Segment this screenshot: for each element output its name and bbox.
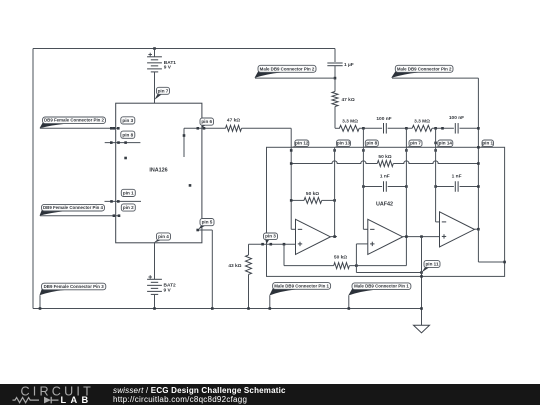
- wire pin8 column: [362, 128, 364, 229]
- flag Male DB9 Connector Pin 2 right: [391, 71, 418, 78]
- wire DB9F3 stub: [39, 295, 41, 308]
- wire pin13 column: [334, 147, 336, 236]
- svg-text:http://circuitlab.com/c8qc8d92: http://circuitlab.com/c8qc8d92cfagg: [113, 395, 247, 404]
- wire feedback 50k row: [291, 161, 377, 164]
- flag DB9 Female Connector Pin 2: [40, 122, 66, 128]
- svg-text:pin 14: pin 14: [439, 140, 453, 145]
- wire BAT2 bottom: [154, 295, 156, 309]
- node pin2 wire dots: [113, 214, 116, 217]
- svg-text:DB9 Female Connector Pin 3: DB9 Female Connector Pin 3: [44, 284, 105, 289]
- wire opamp3 out drop: [477, 229, 479, 262]
- node MaleDB9-1a dot: [269, 307, 272, 310]
- node row dot2: [405, 127, 408, 130]
- wire pin6 inner stub: [183, 128, 185, 157]
- wire 1uF to node: [334, 66, 336, 92]
- wire pin8 stub: [105, 142, 141, 144]
- svg-text:43 kΩ: 43 kΩ: [228, 263, 241, 269]
- wire pin3 input: [40, 127, 118, 129]
- node pin11 dot: [420, 271, 423, 274]
- pin label pin 6: [202, 124, 207, 128]
- svg-text:1 nF: 1 nF: [452, 174, 462, 180]
- wire ground column: [421, 237, 423, 326]
- wire 47k to row: [334, 107, 336, 129]
- pin label pin 1 uaf: [480, 145, 488, 147]
- wire BAT1 top stem: [154, 49, 156, 57]
- svg-text:LAB: LAB: [61, 395, 93, 405]
- wire row seg1: [359, 127, 382, 129]
- wire 1uF top stem: [334, 49, 336, 63]
- svg-text:UAF42: UAF42: [376, 202, 393, 208]
- wire pin1 stub: [105, 200, 142, 202]
- wire down to pin12: [290, 128, 292, 229]
- node 1nF-1 dots: [362, 185, 365, 188]
- svg-text:pin 7: pin 7: [410, 140, 421, 145]
- wire flag MaleDB9-2a: [255, 77, 335, 79]
- svg-text:100 nF: 100 nF: [376, 116, 391, 122]
- pin label pin 4: [154, 239, 163, 243]
- wire pin14 column: [435, 128, 437, 222]
- pin label pin 7: [155, 93, 163, 100]
- wire opamp1 minus input: [291, 228, 295, 230]
- op-amp U1 INA126 box: [116, 103, 202, 243]
- wire 1nF-1 row: [363, 186, 382, 188]
- op-amp OA3: [440, 212, 475, 247]
- node DB9F3 dot: [39, 307, 42, 310]
- svg-text:pin 11: pin 11: [425, 261, 438, 266]
- wire 1nF-1 row right: [388, 186, 407, 188]
- flag DB9 Female Connector Pin 4: [40, 210, 65, 216]
- wire row seg4: [460, 127, 479, 129]
- wire BAT2 top: [154, 243, 156, 279]
- pin label pin 5: [198, 225, 206, 230]
- node pin1 wire dots: [110, 200, 113, 203]
- wire BAT1 to INA126 pin7: [154, 72, 156, 103]
- node stray dot A: [124, 157, 127, 160]
- svg-text:3.3 MΩ: 3.3 MΩ: [342, 119, 358, 125]
- wire pin5 hook: [198, 229, 213, 231]
- wire pin7 column: [405, 128, 407, 265]
- wire 1nF-2 row right: [460, 186, 479, 188]
- wire top supply rail: [33, 48, 335, 50]
- resistor R8 50k: [334, 263, 350, 269]
- node BAT2 rail dot: [153, 307, 156, 310]
- svg-text:INA126: INA126: [149, 168, 167, 174]
- svg-text:pin 13: pin 13: [337, 140, 351, 145]
- node pin6 dots: [197, 127, 200, 130]
- svg-text:pin 12: pin 12: [295, 140, 309, 145]
- svg-text:Male DB9 Connector Pin 2: Male DB9 Connector Pin 2: [260, 66, 315, 71]
- svg-text:1 µF: 1 µF: [344, 62, 354, 68]
- pin label pin 3 uaf: [265, 239, 270, 244]
- svg-text:pin 5: pin 5: [202, 220, 213, 225]
- svg-text:pin 3: pin 3: [265, 234, 276, 239]
- svg-text:50 kΩ: 50 kΩ: [334, 255, 347, 261]
- node opamp2 out dots: [405, 235, 408, 238]
- wire 1nF-2 row: [436, 186, 454, 188]
- svg-text:50 kΩ: 50 kΩ: [306, 191, 319, 197]
- capacitor C5 1nF: [454, 181, 456, 192]
- wire row seg2: [388, 127, 413, 129]
- wire 47k corner to 3.3M: [335, 127, 340, 129]
- pin label pin 8 uaf: [364, 145, 372, 147]
- node opamp3 out dot: [477, 228, 480, 231]
- capacitor C1 1uF: [327, 62, 342, 64]
- flag Male DB9 Connector Pin 2 left: [255, 71, 282, 78]
- svg-text:50 kΩ: 50 kΩ: [378, 154, 391, 160]
- wire opamp1 fb left: [291, 199, 304, 201]
- capacitor C3 100nF: [454, 123, 456, 134]
- svg-text:Male DB9 Connector Pin 1: Male DB9 Connector Pin 1: [274, 283, 329, 288]
- battery BAT2: [147, 278, 162, 280]
- resistor R5 50k: [377, 161, 393, 167]
- wire opamp2 plus input: [356, 243, 367, 245]
- svg-text:swissert / ECG Design Challeng: swissert / ECG Design Challenge Schemati…: [113, 386, 286, 395]
- svg-text:BAT2: BAT2: [164, 282, 177, 288]
- svg-text:100 nF: 100 nF: [449, 115, 464, 121]
- svg-text:pin 1: pin 1: [123, 191, 134, 196]
- svg-text:1 nF: 1 nF: [380, 174, 390, 180]
- wire pin2 input: [40, 215, 119, 217]
- capacitor C2 100nF: [383, 123, 385, 134]
- node plus rail dots: [261, 243, 264, 246]
- flag Male DB9 Connector Pin 1 right: [348, 288, 375, 295]
- logo wire glyph: [13, 398, 59, 403]
- svg-text:9 V: 9 V: [164, 288, 172, 294]
- node row dot3: [434, 127, 437, 130]
- pin label pin 12: [292, 145, 301, 147]
- node pin5 dots: [196, 229, 199, 232]
- wire opamp2 output: [403, 236, 440, 238]
- svg-text:pin 8: pin 8: [122, 132, 133, 137]
- svg-text:DB9 Female Connector Pin 2: DB9 Female Connector Pin 2: [44, 118, 105, 123]
- wire row seg3: [432, 127, 454, 129]
- svg-text:pin 7: pin 7: [158, 88, 169, 93]
- node pin6 stub dot: [183, 134, 186, 137]
- node row dot1: [362, 127, 365, 130]
- wire feedback 50k row right: [393, 161, 478, 164]
- capacitor C4 1nF: [383, 181, 385, 192]
- op-amp OA1: [296, 219, 331, 254]
- node out1 junction: [334, 77, 337, 80]
- resistor R6 50k: [304, 197, 322, 203]
- wire bottom ground rail: [33, 308, 422, 310]
- node ground column dots: [420, 275, 423, 278]
- pin label pin 3: [121, 117, 135, 124]
- wire MaleDB9-1a stub: [269, 296, 271, 309]
- svg-text:pin 1: pin 1: [482, 140, 493, 145]
- ground symbol: [414, 325, 430, 333]
- pin label pin 14: [436, 145, 444, 147]
- svg-text:47 kΩ: 47 kΩ: [227, 118, 240, 124]
- flag DB9 Female Connector Pin 3: [40, 288, 65, 295]
- pin label pin 2: [121, 204, 135, 211]
- pin label pin 8: [121, 131, 135, 138]
- svg-text:Male DB9 Connector Pin 1: Male DB9 Connector Pin 1: [354, 284, 409, 289]
- svg-text:DB9 Female Connector Pin 4: DB9 Female Connector Pin 4: [43, 205, 104, 210]
- svg-text:9 V: 9 V: [164, 65, 172, 71]
- resistor R2 47k vertical: [332, 92, 338, 107]
- node rail dots: [247, 307, 250, 310]
- wire opamp1 fb right: [322, 199, 335, 201]
- pin label pin 1: [121, 189, 135, 196]
- svg-text:47 kΩ: 47 kΩ: [342, 97, 355, 103]
- battery BAT1: [147, 56, 162, 58]
- op-amp OA2: [368, 219, 403, 254]
- node pin3 wire dots: [110, 127, 113, 130]
- wire output feedback top: [392, 77, 478, 79]
- node MaleDB9-1b dot: [348, 307, 351, 310]
- resistor R7 43k vertical: [248, 244, 250, 255]
- wire pin11 row: [356, 272, 421, 274]
- wire pin6 row right: [242, 127, 292, 129]
- wire opamp3 output: [474, 228, 478, 230]
- svg-text:pin 3: pin 3: [122, 118, 133, 123]
- node 50k2 dot: [355, 264, 358, 267]
- node right edge join: [503, 261, 506, 264]
- node stray dot B: [189, 184, 192, 187]
- wire 50k2 left leg: [283, 244, 285, 265]
- svg-text:pin 4: pin 4: [158, 234, 169, 239]
- wire pin6 row left: [184, 127, 226, 129]
- node opamp1 fb dots: [290, 199, 293, 202]
- flag Male DB9 Connector Pin 1 left: [269, 288, 295, 296]
- svg-text:pin 2: pin 2: [123, 205, 134, 210]
- pin label pin 7 uaf: [407, 145, 415, 147]
- pin label pin 11: [422, 266, 430, 272]
- svg-text:Male DB9 Connector Pin 2: Male DB9 Connector Pin 2: [397, 66, 452, 71]
- node pin8 wire dots: [110, 141, 113, 144]
- node BAT1 top junction: [153, 47, 156, 50]
- wire left border: [32, 49, 34, 309]
- node row dot4: [477, 127, 480, 130]
- wire output right drop: [477, 78, 479, 229]
- svg-text:3.3 MΩ: 3.3 MΩ: [414, 119, 430, 125]
- resistor R1 47k: [226, 125, 242, 131]
- wire opamp2 plus leg: [355, 244, 357, 273]
- resistor R4 3.3M: [412, 125, 432, 131]
- node feedback row dots: [290, 162, 293, 165]
- svg-text:pin 6: pin 6: [201, 119, 212, 124]
- svg-text:pin 8: pin 8: [366, 140, 377, 145]
- node opamp1 out dot: [333, 235, 336, 238]
- wire 50k2 right: [349, 265, 406, 267]
- wire opamp1 output: [330, 236, 337, 238]
- node pin top dots: [290, 149, 293, 152]
- node 1nF-2 dots: [434, 185, 437, 188]
- pin label pin 13: [335, 145, 343, 147]
- wire feedback ring: [267, 147, 505, 276]
- wire MaleDB9-1b stub: [348, 296, 350, 309]
- wire plus rail: [249, 243, 296, 245]
- resistor R3 3.3M: [339, 125, 359, 131]
